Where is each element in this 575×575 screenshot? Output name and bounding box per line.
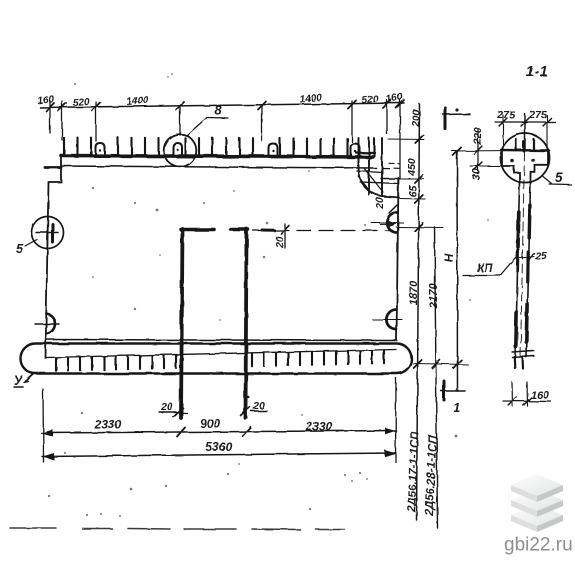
label 5 leader	[25, 240, 37, 247]
logo stack slab 3	[511, 474, 563, 532]
section stem	[516, 183, 520, 357]
svg-text:1400: 1400	[126, 95, 150, 108]
corner seat hatch horizontals	[356, 151, 375, 154]
svg-text:5: 5	[16, 241, 24, 256]
svg-text:275: 275	[528, 109, 547, 121]
dashed level line from slot top	[253, 230, 393, 232]
panel top edge (thick)	[61, 156, 373, 158]
svg-text:450: 450	[406, 158, 418, 177]
corner seat outline arc	[359, 157, 400, 198]
section 25 dim	[516, 257, 534, 259]
section 160 dim	[511, 382, 514, 406]
svg-text:1870: 1870	[408, 280, 420, 305]
H dimension line	[456, 151, 459, 392]
svg-text:1-1: 1-1	[526, 64, 548, 80]
svg-text:8: 8	[214, 103, 222, 118]
slot right wall	[246, 229, 247, 418]
top dimension line	[40, 103, 404, 108]
svg-text:20: 20	[160, 401, 173, 413]
top dim labels	[37, 91, 404, 108]
right edge bump upper	[387, 213, 397, 233]
panel right edge	[397, 178, 399, 340]
KP label	[477, 263, 493, 275]
slot 20 dim right	[251, 410, 267, 412]
svg-text:20: 20	[274, 236, 286, 249]
section top tabs	[515, 139, 517, 150]
top dim ticks	[46, 100, 404, 111]
scan specks	[48, 73, 489, 517]
section channel dark marks	[516, 205, 530, 347]
logo stack slab 2	[511, 489, 563, 511]
section detail circle	[501, 134, 550, 183]
logo stack slab 1	[511, 474, 563, 496]
svg-text:1400: 1400	[299, 93, 323, 106]
svg-text:gbi22.ru: gbi22.ru	[504, 535, 573, 556]
section 1-1 title	[526, 64, 548, 80]
section left dims 220/30	[477, 129, 479, 171]
svg-text:220: 220	[472, 127, 484, 146]
svg-text:2330: 2330	[305, 420, 333, 434]
right vertical dim line A (200/450/65/1870 + code underline)	[417, 104, 420, 520]
svg-text:5360: 5360	[206, 440, 233, 454]
svg-text:275: 275	[496, 109, 515, 121]
section stem axis	[521, 152, 525, 357]
svg-text:200: 200	[410, 109, 422, 128]
svg-text:1: 1	[453, 400, 460, 415]
bottom dim line 1	[41, 431, 396, 434]
bottom dim line 2	[42, 453, 396, 457]
right vertical dim line B (2170 + code underline)	[435, 227, 438, 528]
corner 20 label	[375, 197, 386, 210]
svg-text:2170: 2170	[428, 283, 440, 309]
right edge bump lower	[386, 310, 396, 330]
svg-text:2330: 2330	[94, 418, 122, 432]
svg-text:Н: Н	[442, 253, 456, 262]
left end bar	[45, 166, 61, 169]
section 275 dim line	[495, 121, 555, 123]
stadium inner line	[46, 350, 396, 358]
bottom hatch ticks	[56, 351, 384, 371]
rebar loop glyphs on top edge	[96, 143, 360, 156]
product code 2	[424, 434, 440, 517]
svg-text:520: 520	[72, 96, 90, 108]
Y mark bottom left	[26, 374, 34, 381]
bottom bar (stadium)	[21, 344, 412, 374]
detail circle 8 on top edge	[164, 134, 197, 167]
svg-text:65: 65	[407, 185, 419, 197]
svg-text:20: 20	[252, 400, 265, 412]
svg-text:30: 30	[471, 169, 483, 181]
corner extension lines to right dims	[388, 139, 468, 365]
svg-text:25: 25	[534, 250, 547, 262]
corner arrow	[380, 223, 395, 226]
corner seat box	[381, 178, 398, 180]
left edge loop bump	[46, 314, 55, 335]
product code 1	[406, 430, 422, 513]
section flange	[501, 149, 549, 152]
section mark bottom	[443, 381, 446, 400]
corner seat diagonals	[364, 168, 383, 192]
svg-text:5: 5	[555, 170, 563, 185]
section rebar dots	[510, 159, 514, 163]
slot 20 dim left	[159, 411, 176, 413]
panel top edge second line	[61, 166, 376, 168]
section stem bottom	[513, 351, 535, 353]
svg-text:КП: КП	[477, 263, 493, 275]
paper edge broken line	[10, 528, 345, 530]
svg-text:160: 160	[37, 94, 55, 107]
svg-text:900: 900	[200, 417, 220, 431]
right extension line	[395, 378, 398, 462]
section label 5	[543, 177, 552, 184]
svg-text:20: 20	[375, 197, 386, 210]
svg-text:160: 160	[531, 390, 550, 402]
detail circle 5 (left edge)	[32, 217, 64, 249]
corner seat hatch verticals	[359, 138, 383, 196]
top hatch ticks	[64, 138, 375, 157]
panel left step and left edge	[46, 157, 62, 358]
slot left wall	[181, 229, 183, 418]
svg-text:520: 520	[361, 94, 379, 106]
top extension lines	[50, 100, 400, 178]
panel bottom edge	[46, 340, 398, 341]
slot top line segments	[181, 228, 214, 232]
section mark top	[444, 108, 447, 129]
left extension line	[42, 389, 45, 462]
top edge dashes to corner	[382, 167, 399, 169]
